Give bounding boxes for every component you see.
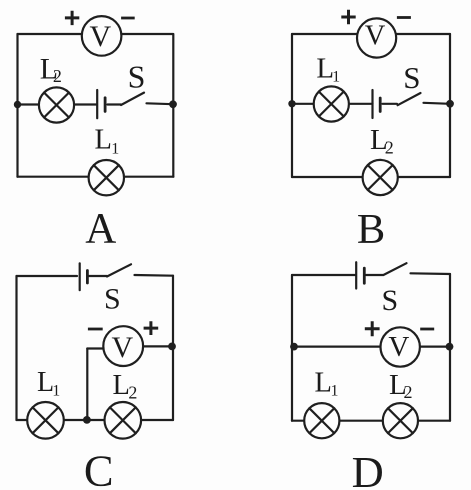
node: C bottom junction	[83, 416, 91, 424]
node: A left junction	[14, 101, 21, 108]
wire: A left vertical	[16, 34, 18, 177]
wire: A top horizontal	[18, 33, 174, 35]
wire: D battery to switch pivot	[366, 274, 383, 276]
switch S lever (C)	[107, 264, 131, 276]
wire: C top left segment	[17, 275, 78, 277]
svg-text:L2: L2	[113, 370, 138, 403]
svg-text:V: V	[89, 20, 111, 53]
wire: D top left segment	[292, 274, 355, 276]
svg-text:L2: L2	[40, 53, 62, 86]
svg-text:C: C	[84, 446, 114, 490]
lamp L1 (B)	[314, 86, 349, 121]
svg-text:L1: L1	[95, 124, 120, 157]
lamp L2 (D)	[383, 403, 418, 438]
wire: B switch contact to right node	[424, 103, 451, 104]
svg-text:L2: L2	[389, 369, 413, 402]
polarity - (C)	[88, 328, 103, 331]
node: D left junction	[290, 343, 298, 351]
switch S lever (B)	[398, 93, 421, 105]
wire: B top horizontal	[292, 33, 450, 35]
wire: C switch contact to right	[135, 274, 174, 277]
polarity + (D)	[365, 321, 380, 336]
wire: A bottom horizontal	[18, 176, 174, 178]
battery (A)	[97, 90, 105, 118]
wire: C voltmeter branch right	[143, 345, 174, 347]
svg-text:S: S	[128, 59, 146, 95]
wire: D left vertical	[291, 275, 293, 421]
svg-text:V: V	[365, 20, 386, 51]
wire: D middle branch	[292, 346, 450, 348]
svg-text:L1: L1	[316, 53, 340, 86]
wire: C voltmeter branch left stub	[87, 347, 104, 349]
switch S lever (D)	[383, 263, 406, 275]
node: B right junction	[446, 100, 454, 108]
node: A right junction	[169, 100, 177, 108]
wire: A right vertical	[172, 34, 174, 177]
wire: B middle branch left	[292, 103, 373, 105]
voltmeter V (D)	[381, 327, 420, 366]
wire: B left vertical	[291, 34, 293, 177]
wire: D switch contact to right	[411, 272, 451, 275]
switch S lever (A)	[121, 93, 144, 105]
wire: D right vertical	[449, 274, 451, 421]
svg-text:L2: L2	[370, 124, 394, 157]
wire: C bottom horizontal	[17, 419, 174, 421]
battery (B)	[373, 90, 381, 118]
lamp L1 (C)	[27, 402, 64, 439]
polarity - (D)	[420, 328, 434, 331]
svg-text:A: A	[85, 206, 116, 253]
node: B left junction	[288, 100, 295, 107]
wire: B right vertical	[449, 34, 451, 177]
lamp L1 (A)	[89, 160, 124, 195]
node: D right junction	[446, 343, 454, 351]
svg-text:B: B	[357, 206, 385, 253]
svg-text:D: D	[352, 447, 384, 490]
lamp L2 (B)	[363, 160, 398, 195]
wire: A switch contact to right node	[147, 102, 174, 105]
svg-text:L1: L1	[37, 367, 60, 400]
svg-text:S: S	[382, 284, 399, 317]
voltmeter V (B)	[357, 18, 396, 57]
wire: D bottom horizontal	[292, 420, 450, 422]
wire: B bottom horizontal	[292, 176, 450, 178]
svg-text:S: S	[104, 282, 121, 315]
battery (D)	[356, 262, 364, 288]
battery (C)	[80, 263, 88, 290]
voltmeter V (A)	[82, 16, 122, 56]
wire: A middle branch left	[18, 103, 98, 105]
lamp L1 (D)	[304, 403, 339, 438]
polarity + (B)	[341, 10, 355, 24]
polarity + (A)	[65, 11, 79, 25]
polarity + (C)	[144, 321, 159, 335]
svg-text:V: V	[388, 331, 409, 363]
voltmeter V (C)	[103, 326, 143, 366]
svg-text:L1: L1	[315, 368, 339, 400]
wire: C inner vertical	[86, 349, 88, 421]
lamp L2 (C)	[105, 402, 142, 439]
wire: C right vertical	[172, 276, 174, 420]
wire: A battery to switch pivot	[108, 103, 122, 105]
svg-text:S: S	[403, 60, 420, 95]
polarity - (B)	[397, 16, 411, 19]
wire: C battery to switch pivot	[89, 275, 107, 277]
wire: C left vertical	[15, 276, 17, 420]
svg-text:V: V	[111, 331, 133, 364]
node: C right junction	[168, 343, 176, 351]
wire: B battery to switch pivot	[383, 103, 398, 105]
polarity - (A)	[121, 17, 135, 20]
lamp L2 (A)	[39, 87, 74, 122]
